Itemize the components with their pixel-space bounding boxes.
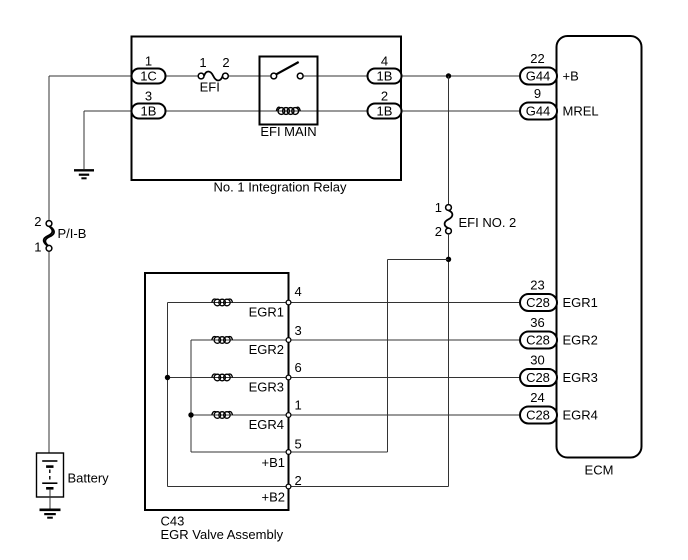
svg-text:22: 22: [530, 51, 544, 66]
wire: battery positive feed up to pin 1C (node B+): [49, 76, 132, 221]
svg-text:2: 2: [34, 214, 41, 229]
svg-text:1C: 1C: [140, 68, 157, 83]
wire: EGR pin 6 to ECM EGR3: [291, 377, 520, 379]
svg-text:EGR3: EGR3: [563, 370, 598, 385]
EGR connector pin 1: [286, 413, 291, 418]
svg-text:3: 3: [295, 323, 302, 338]
battery: [37, 453, 64, 509]
svg-text:6: 6: [295, 360, 302, 375]
svg-text:MREL: MREL: [563, 103, 599, 118]
svg-text:EFI NO. 2: EFI NO. 2: [459, 215, 517, 230]
svg-text:30: 30: [530, 353, 544, 368]
svg-text:C28: C28: [526, 295, 550, 310]
svg-text:EGR2: EGR2: [563, 332, 598, 347]
svg-text:EGR Valve Assembly: EGR Valve Assembly: [161, 527, 284, 542]
EGR valve assembly box C43: [145, 273, 289, 510]
wire: fuse EFI NO. 2 down to +B2 branch: [448, 234, 450, 487]
wire: EGR pin 4 to ECM EGR1: [291, 302, 520, 304]
connector pin C28 36 (EGR2): [520, 332, 557, 349]
wire: fuse EFI to relay EFI MAIN switch: [228, 75, 271, 77]
EGR connector pin 4: [286, 300, 291, 305]
ECM box: [557, 36, 642, 458]
node: B+ junction: [446, 73, 451, 78]
svg-text:1B: 1B: [377, 68, 393, 83]
svg-text:1: 1: [435, 200, 442, 215]
EGR connector pin 3: [286, 338, 291, 343]
node: EGR4 junction: [188, 412, 193, 417]
wire: EGR pin 3 to ECM EGR2: [291, 339, 520, 341]
wire: branch to +B1: [291, 259, 449, 452]
connector P/I-B pin 1: [46, 245, 52, 251]
svg-text:2: 2: [381, 88, 388, 103]
svg-text:4: 4: [295, 284, 302, 299]
connector P/I-B pin 2: [46, 221, 52, 227]
svg-text:EGR2: EGR2: [249, 342, 284, 357]
ground (relay ground): [74, 170, 94, 178]
wire: pin 1C to fuse EFI: [166, 75, 199, 77]
wire: EGR3 coil row: [168, 377, 286, 379]
wire: +B2 feed: [291, 486, 449, 488]
svg-text:36: 36: [530, 315, 544, 330]
wire: P/I-B to battery: [48, 251, 50, 461]
svg-text:ECM: ECM: [585, 463, 614, 478]
wire: pin 2 (1B) to ECM MREL: [402, 110, 521, 112]
connector pin C28 23 (EGR1): [520, 294, 557, 311]
svg-text:3: 3: [145, 88, 152, 103]
relay box: No. 1 Integration Relay: [132, 37, 402, 181]
svg-text:1: 1: [145, 53, 152, 68]
coil EGR1: [212, 299, 233, 306]
connector P/I-B twisted-joint symbol: [44, 226, 54, 246]
connector pin 1B (relay pin 3): [132, 104, 166, 119]
svg-text:EFI MAIN: EFI MAIN: [260, 124, 316, 139]
svg-text:9: 9: [534, 86, 541, 101]
wire: EGR4 coil row: [191, 414, 285, 416]
connector pin 1B (relay pin 2): [368, 104, 402, 119]
svg-text:1: 1: [295, 398, 302, 413]
connector pin C28 30 (EGR3): [520, 369, 557, 386]
svg-text:5: 5: [295, 437, 302, 452]
svg-text:C28: C28: [526, 407, 550, 422]
node: EFI NO.2 output junction: [446, 257, 451, 262]
wire: pin 3 (1B) to chassis ground: [84, 111, 132, 169]
coil EGR3: [212, 374, 233, 381]
svg-text:24: 24: [530, 390, 544, 405]
svg-text:Battery: Battery: [68, 471, 110, 486]
wire: EGR2 coil row: [191, 339, 285, 341]
ground (battery ground): [40, 510, 61, 518]
svg-text:2: 2: [435, 224, 442, 239]
svg-text:1B: 1B: [141, 103, 157, 118]
svg-text:2: 2: [222, 55, 229, 70]
svg-text:C28: C28: [526, 332, 550, 347]
svg-text:EGR4: EGR4: [249, 417, 284, 432]
svg-text:G44: G44: [526, 68, 551, 83]
connector pin 1C (relay pin 1): [132, 69, 166, 84]
relay EFI MAIN switch contact: [271, 62, 303, 79]
svg-text:1: 1: [199, 55, 206, 70]
wire: EFI MAIN switch to pin 4 (1B): [303, 75, 368, 77]
svg-text:+B1: +B1: [262, 455, 286, 470]
fuse EFI NO. 2: [445, 205, 453, 234]
relay EFI MAIN coil: [276, 107, 300, 114]
fuse EFI: [198, 72, 228, 81]
connector pin G44 22 (+B): [520, 68, 557, 85]
wire: internal bus to +B2 (EGR1/EGR3 common): [168, 303, 286, 487]
svg-text:1B: 1B: [377, 103, 393, 118]
wire: internal bus to +B1 (EGR2/EGR4 common): [191, 340, 285, 452]
svg-text:23: 23: [530, 278, 544, 293]
svg-text:EGR4: EGR4: [563, 407, 598, 422]
svg-text:EGR1: EGR1: [563, 295, 598, 310]
svg-text:1: 1: [34, 240, 41, 255]
coil EGR4: [212, 412, 233, 419]
wire: EGR1 coil row: [168, 302, 286, 304]
EGR connector pin 2: [286, 484, 291, 489]
EGR connector pin 5: [286, 450, 291, 455]
wire: pin 4 (1B) to ECM +B with branch node: [402, 75, 521, 77]
svg-text:2: 2: [295, 473, 302, 488]
svg-text:EFI: EFI: [200, 80, 220, 95]
svg-text:EGR3: EGR3: [249, 380, 284, 395]
connector pin G44 9 (MREL): [520, 103, 557, 120]
connector pin 1B (relay pin 4): [368, 69, 402, 84]
wire: pin 3 (1B) through EFI MAIN coil to pin 2 (1B): [166, 110, 368, 112]
wire: EGR pin 1 to ECM EGR4: [291, 414, 520, 416]
svg-text:+B2: +B2: [262, 490, 286, 505]
connector pin C28 24 (EGR4): [520, 407, 557, 424]
coil EGR2: [212, 337, 233, 344]
svg-text:G44: G44: [526, 103, 551, 118]
svg-text:P/I-B: P/I-B: [58, 226, 87, 241]
svg-text:+B: +B: [563, 68, 579, 83]
svg-text:4: 4: [381, 53, 388, 68]
node: EGR3 junction: [165, 375, 170, 380]
svg-text:EGR1: EGR1: [249, 305, 284, 320]
wire: junction down to fuse EFI NO. 2: [448, 76, 450, 205]
relay EFI MAIN box: [260, 57, 318, 125]
EGR connector pin 6: [286, 375, 291, 380]
svg-text:C28: C28: [526, 370, 550, 385]
svg-text:No. 1 Integration Relay: No. 1 Integration Relay: [214, 179, 347, 194]
